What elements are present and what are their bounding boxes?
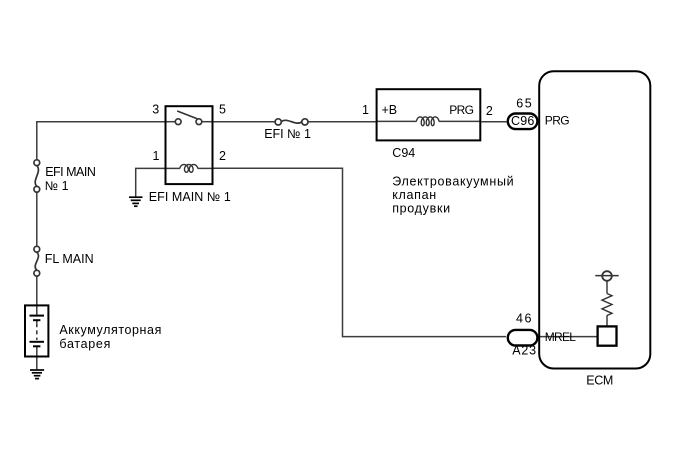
svg-text:46: 46 <box>516 312 533 326</box>
svg-text:EFI MAIN № 1: EFI MAIN № 1 <box>149 190 231 204</box>
svg-text:EFI MAIN: EFI MAIN <box>45 165 96 179</box>
svg-text:2: 2 <box>219 149 226 163</box>
svg-text:Аккумуляторная: Аккумуляторная <box>59 323 162 337</box>
svg-text:№ 1: № 1 <box>45 179 69 193</box>
svg-text:+B: +B <box>382 103 398 117</box>
svg-text:1: 1 <box>152 149 159 163</box>
svg-text:клапан: клапан <box>392 188 437 202</box>
svg-text:ECM: ECM <box>586 374 613 388</box>
svg-text:PRG: PRG <box>449 103 473 117</box>
svg-text:2: 2 <box>486 104 493 118</box>
svg-text:Электровакуумный: Электровакуумный <box>392 175 514 189</box>
svg-text:продувки: продувки <box>392 201 451 215</box>
svg-text:65: 65 <box>516 97 533 111</box>
svg-text:PRG: PRG <box>545 113 569 127</box>
svg-text:EFI № 1: EFI № 1 <box>264 127 311 141</box>
svg-text:батарея: батарея <box>59 337 111 351</box>
svg-text:C96: C96 <box>511 114 535 128</box>
svg-text:MREL: MREL <box>545 330 576 344</box>
svg-text:1: 1 <box>362 103 369 117</box>
svg-text:5: 5 <box>219 102 226 116</box>
svg-text:3: 3 <box>152 102 159 116</box>
svg-text:FL MAIN: FL MAIN <box>45 252 94 266</box>
svg-text:C94: C94 <box>392 146 415 160</box>
svg-text:A23: A23 <box>512 343 537 357</box>
